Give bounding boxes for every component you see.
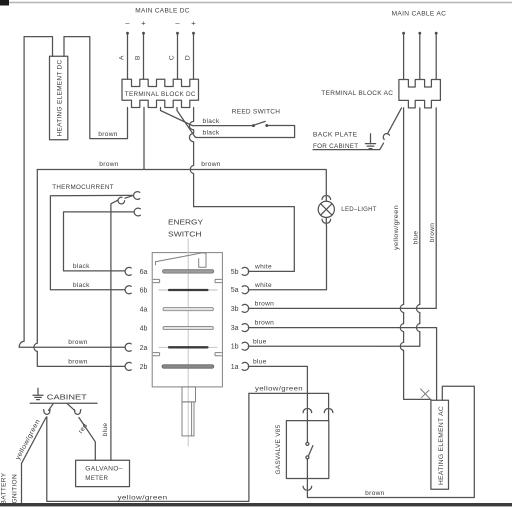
svg-text:blue: blue: [412, 231, 419, 245]
svg-text:yellow/green: yellow/green: [255, 386, 303, 393]
svg-text:yellow/green: yellow/green: [118, 495, 168, 502]
svg-text:C: C: [168, 55, 175, 60]
svg-text:3b: 3b: [231, 306, 239, 313]
svg-text:CABINET: CABINET: [47, 392, 87, 401]
svg-text:REED SWITCH: REED SWITCH: [232, 109, 281, 116]
gas valve hook right: [324, 409, 333, 413]
connector hook on back plate wire: [383, 134, 389, 140]
terminal socket 6a: [125, 267, 131, 275]
svg-text:white: white: [254, 282, 272, 289]
switch shaft: [182, 387, 196, 436]
wire 2a brown: [19, 346, 125, 348]
switch contact bar row 6a/5b: [163, 270, 214, 273]
cabinet left connector: [49, 403, 54, 410]
wire: terminal block DC tab4 diagonal to reed black wire 2: [177, 108, 197, 138]
cabinet right connector: [67, 403, 75, 410]
svg-text:IGNITION: IGNITION: [11, 474, 18, 506]
terminal socket 1b: [242, 342, 249, 350]
cabinet left hook: [44, 410, 51, 415]
wire 1b blue: [248, 345, 419, 347]
wire C (DC main cable): [176, 32, 179, 79]
wire 3b brown: [248, 307, 436, 309]
svg-text:THERMOCURRENT: THERMOCURRENT: [52, 184, 114, 191]
terminal socket 5b: [242, 267, 249, 275]
ground symbol (cabinet): [33, 388, 43, 399]
svg-text:HEATING ELEMENT DC: HEATING ELEMENT DC: [56, 60, 63, 137]
switch contact bar row 4b/3a: [163, 327, 213, 330]
gas valve body: [275, 421, 329, 479]
svg-text:brown: brown: [99, 161, 118, 168]
switch contact bar row 4a/3b: [163, 308, 213, 311]
svg-text:A: A: [118, 55, 125, 60]
gas valve switch: [306, 414, 329, 486]
terminal socket 3b: [242, 304, 249, 312]
terminal socket 5a: [242, 286, 249, 294]
polarity signs - + - +: [125, 19, 196, 28]
svg-text:black: black: [73, 263, 90, 270]
terminal labels left: [140, 269, 148, 371]
svg-text:brown: brown: [98, 131, 117, 138]
wire: cabinet to bottom yellow/green: [47, 393, 249, 501]
svg-text:5b: 5b: [231, 269, 239, 276]
galvanometer: [76, 460, 130, 486]
wire D (DC main cable): [192, 32, 195, 79]
hops of blue vertical at 3b 3a: [417, 304, 420, 331]
thermocurrent wire 1 (to 6b): [50, 195, 133, 289]
gas valve hook left: [303, 409, 312, 413]
svg-text:blue: blue: [253, 358, 267, 365]
thermocouple socket 1: [134, 192, 140, 200]
wire B (DC main cable): [142, 32, 145, 79]
svg-text:6a: 6a: [140, 269, 148, 276]
svg-text:2b: 2b: [140, 364, 148, 371]
wire red: cabinet to galvanometer: [79, 418, 95, 461]
wire: LED bottom to 5a: [248, 225, 326, 289]
svg-text:black: black: [73, 282, 90, 289]
switch contact bar row 2a/1b: [159, 346, 218, 348]
thermocouple pin wire (blue to galvanometer): [111, 200, 118, 460]
svg-text:brown: brown: [201, 161, 220, 168]
svg-text:blue: blue: [102, 423, 109, 437]
svg-text:GASVALVE V85: GASVALVE V85: [275, 424, 282, 474]
svg-text:brown: brown: [255, 320, 274, 327]
thermocouple pin hook: [117, 196, 126, 205]
svg-text:ENERGY: ENERGY: [168, 218, 203, 227]
svg-text:brown: brown: [429, 223, 436, 242]
svg-text:black: black: [203, 130, 220, 137]
svg-text:BATTERY: BATTERY: [1, 472, 8, 504]
wire: heating element DC left terminal up and left, down to 2a: [19, 37, 52, 348]
switch contact bar row 6b/5a: [159, 289, 218, 291]
wire: terminal block DC tab2 down, brown net to left and LED (T junction): [37, 108, 326, 193]
wire 3a brown: [248, 328, 436, 401]
wire black 1 to reed switch: [193, 125, 252, 127]
svg-text:6b: 6b: [140, 288, 148, 295]
svg-text:1a: 1a: [231, 364, 239, 371]
wire yellow/green to gas valve: [249, 393, 329, 413]
wire 1a blue: [248, 366, 307, 413]
AC vertical brown: [435, 108, 437, 309]
wire: reed switch loop right side back on black 2: [197, 126, 295, 138]
svg-text:FOR CABINET: FOR CABINET: [313, 143, 359, 150]
svg-text:BACK PLATE: BACK PLATE: [313, 131, 358, 138]
svg-text:5a: 5a: [231, 287, 239, 294]
svg-text:black: black: [203, 118, 220, 125]
terminal block AC: [399, 80, 441, 108]
svg-text:yellow/green: yellow/green: [393, 205, 400, 250]
hop of wire D over black1: [189, 108, 193, 164]
terminal block DC: [122, 79, 199, 107]
svg-text:+: +: [141, 19, 146, 28]
svg-text:blue: blue: [253, 338, 267, 345]
gas valve bottom hook: [303, 486, 312, 490]
svg-text:4b: 4b: [140, 326, 148, 333]
heating element DC: [50, 56, 68, 140]
wire: brown net left segment down to 2b: [37, 170, 125, 367]
thermocurrent wire 2 (to 6a): [64, 212, 135, 271]
AC vertical blue: [419, 108, 421, 346]
svg-text:brown: brown: [68, 339, 87, 346]
svg-text:LED–LIGHT: LED–LIGHT: [341, 206, 377, 213]
svg-text:B: B: [134, 55, 141, 60]
svg-text:METER: METER: [85, 475, 108, 482]
wire D net: down, right, down to 5b: [194, 207, 295, 272]
svg-text:D: D: [184, 55, 191, 60]
wire from hook to back plate line: [313, 143, 384, 149]
svg-text:3a: 3a: [231, 325, 239, 332]
svg-text:SWITCH: SWITCH: [168, 229, 202, 238]
wire A (DC main cable): [126, 32, 129, 79]
crossed wires mark at heating element AC: [420, 389, 430, 400]
hop of left brown vertical over 2a wire: [34, 343, 37, 351]
svg-text:+: +: [191, 19, 196, 28]
AC wire N (main cable): [418, 32, 421, 80]
wire: yellow/green diagonal to battery/ignition: [22, 418, 47, 505]
page bottom border: [0, 503, 512, 506]
svg-text:TERMINAL BLOCK DC: TERMINAL BLOCK DC: [125, 91, 196, 98]
page top edge line: [0, 0, 512, 6]
cabinet right hook: [74, 410, 81, 415]
svg-text:brown: brown: [365, 490, 384, 497]
reed switch contacts: [252, 121, 268, 127]
hops of yellow/green vertical at 3b 3a 1b: [400, 304, 403, 350]
svg-text:MAIN CABLE AC: MAIN CABLE AC: [392, 10, 447, 17]
svg-text:1b: 1b: [231, 344, 239, 351]
wire: terminal block DC tab3 diagonal to reed black wire 1: [161, 108, 194, 126]
AC wire PE (main cable): [435, 32, 438, 80]
AC vertical yellow/green: [404, 108, 431, 400]
terminal labels right: [231, 269, 239, 371]
wire: gas valve to bottom brown: [307, 386, 474, 497]
terminal socket 2a: [125, 343, 131, 351]
wire: back plate diagonal from block AC: [388, 108, 402, 134]
LED light: [318, 193, 334, 226]
switch contact bar row 2b/1a: [162, 365, 214, 368]
svg-text:brown: brown: [68, 358, 87, 365]
terminal socket 6b: [125, 286, 131, 294]
terminal socket 2b: [125, 362, 131, 370]
energy switch body: [152, 239, 222, 447]
svg-text:4a: 4a: [140, 307, 148, 314]
heating element AC: [431, 400, 449, 489]
AC wire L (main cable): [402, 32, 405, 80]
svg-text:MAIN CABLE DC: MAIN CABLE DC: [135, 7, 190, 14]
svg-text:TERMINAL BLOCK AC: TERMINAL BLOCK AC: [321, 90, 393, 97]
wire 5b white: [248, 270, 294, 272]
cabinet plate line: [30, 402, 97, 404]
svg-text:brown: brown: [255, 300, 274, 307]
svg-text:2a: 2a: [140, 345, 148, 352]
terminal socket 1a: [242, 362, 249, 370]
ground symbol (back plate): [365, 134, 375, 149]
terminal socket 3a: [242, 324, 249, 332]
svg-text:GALVANO–: GALVANO–: [85, 465, 123, 472]
svg-text:HEATING ELEMENT AC: HEATING ELEMENT AC: [438, 406, 445, 485]
svg-text:white: white: [254, 263, 272, 270]
hop of wire D over brown net: [190, 163, 193, 207]
wire: heating element DC right terminal to terminal block DC tab1 (brown): [64, 37, 128, 139]
thermocouple socket 2: [134, 208, 140, 216]
